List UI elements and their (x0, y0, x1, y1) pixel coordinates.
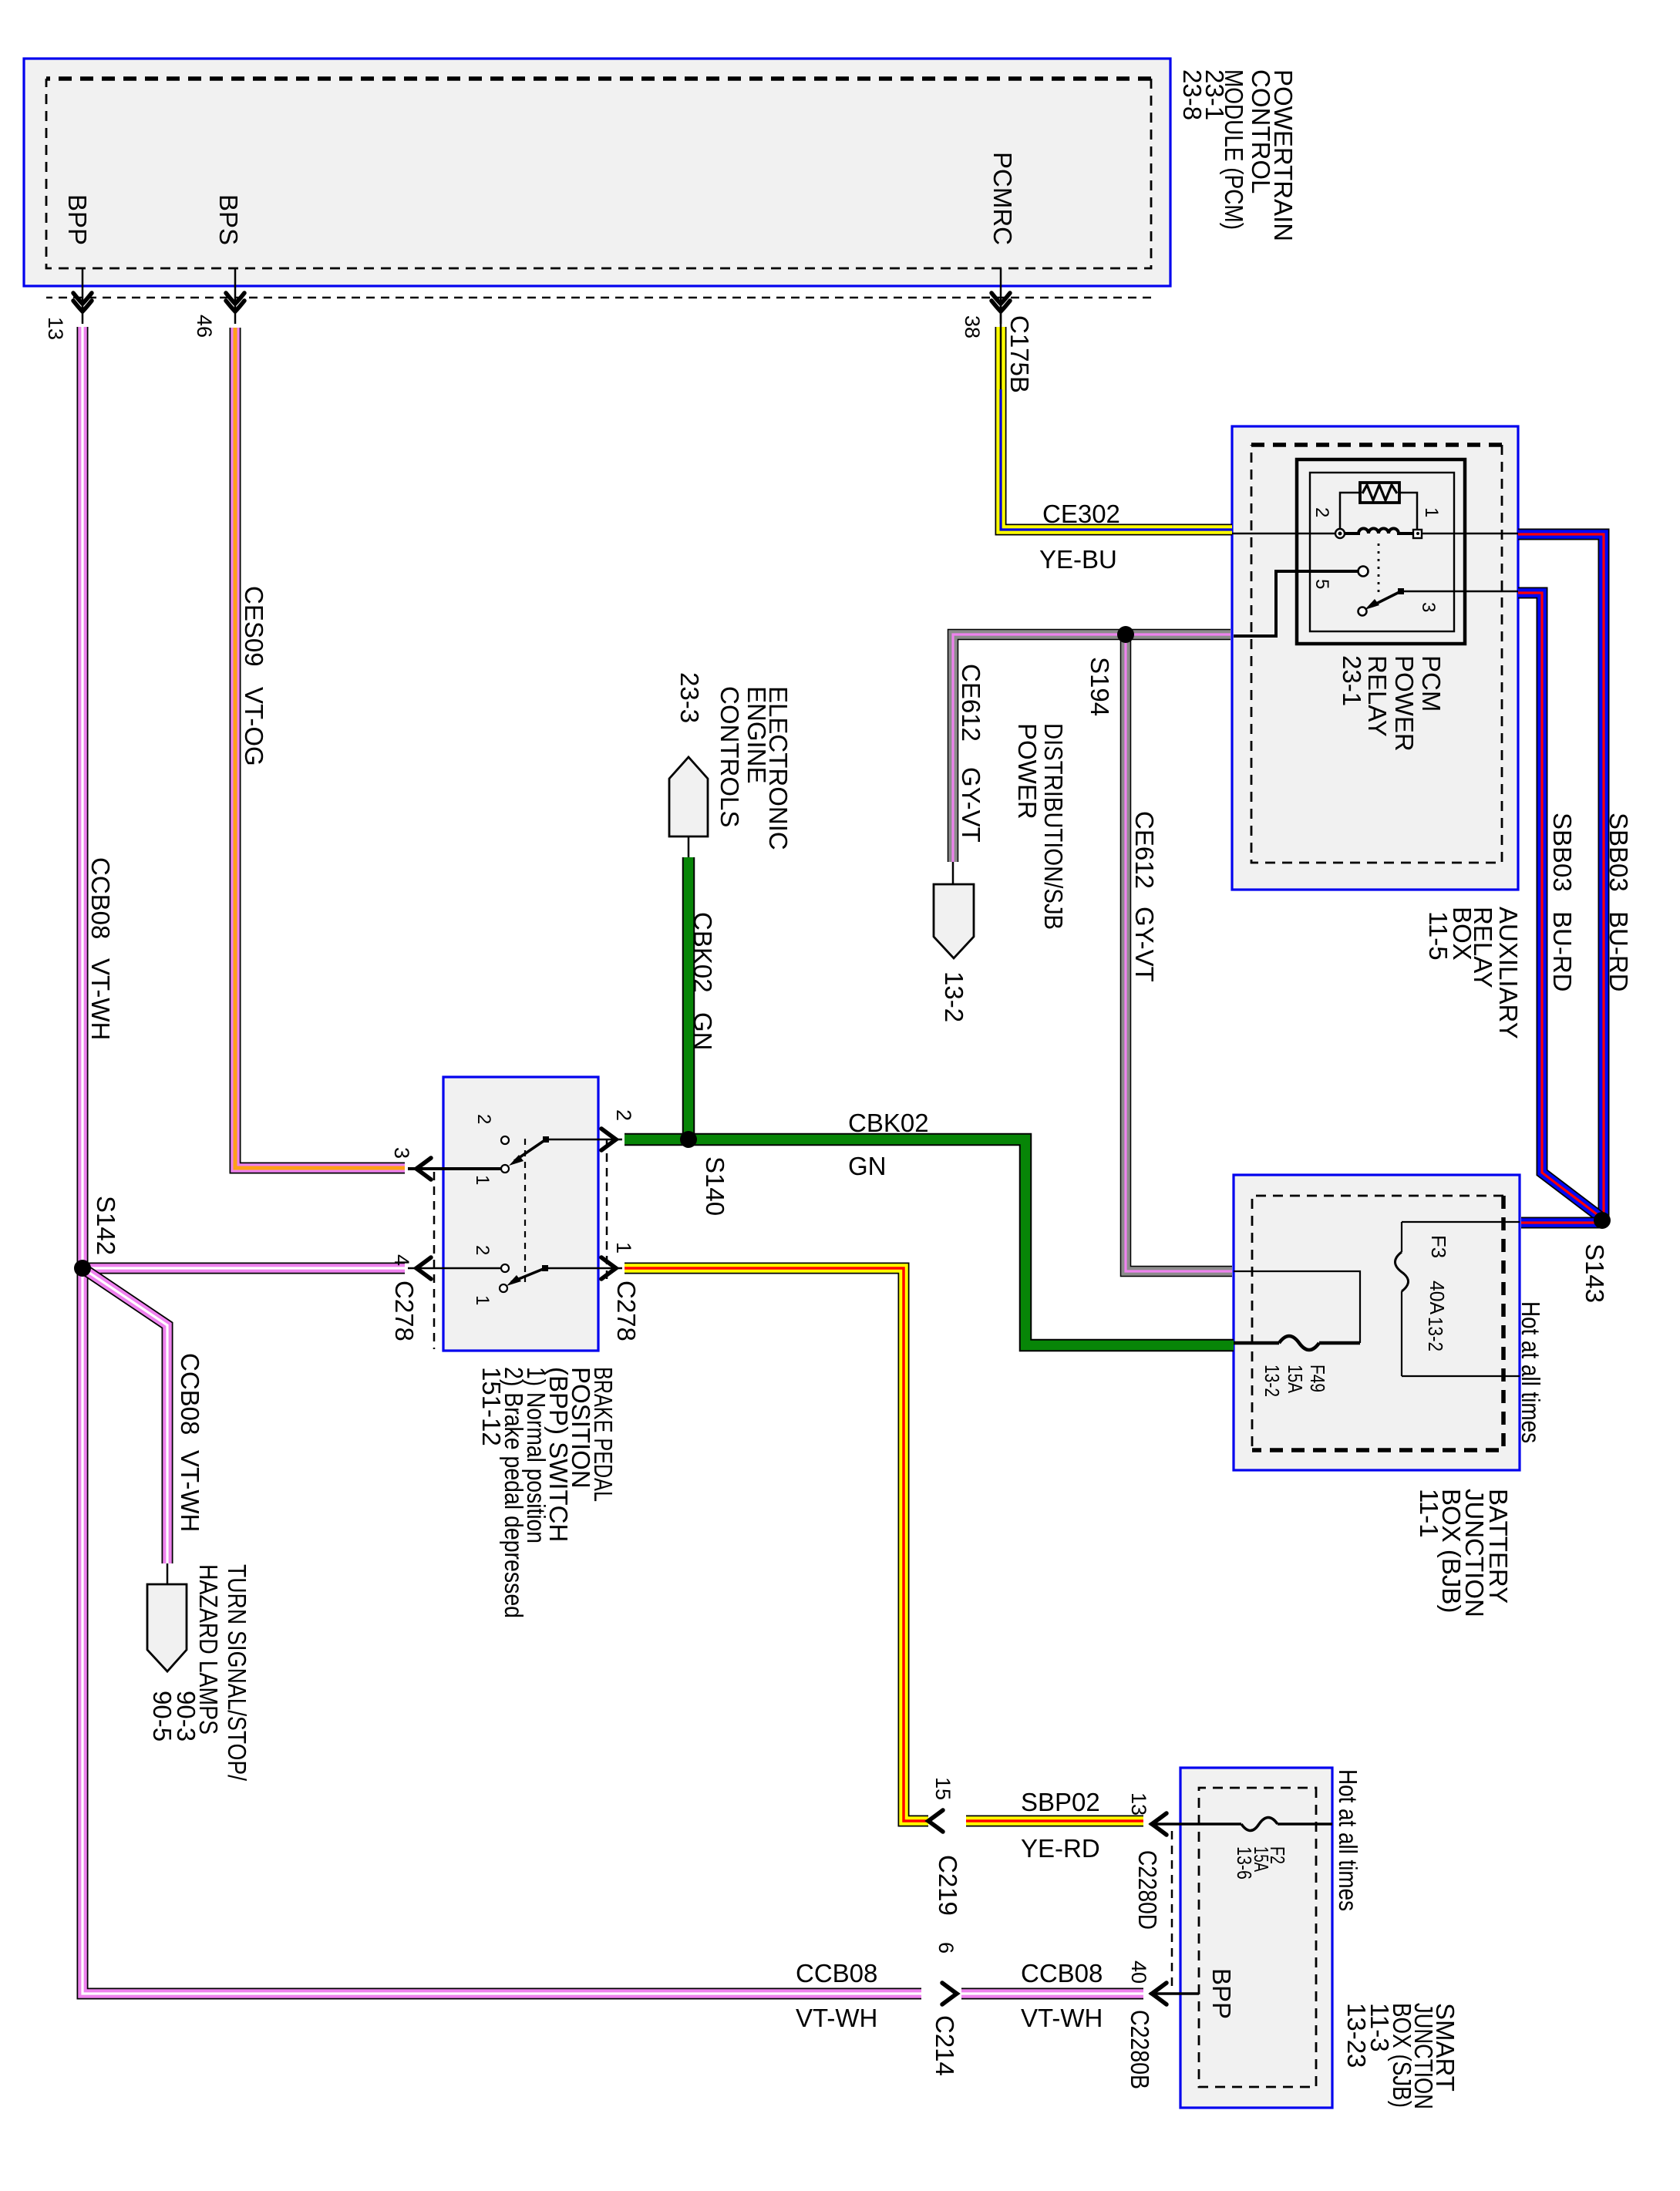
svg-text:PCMRC: PCMRC (988, 152, 1017, 245)
svg-text:SBP02: SBP02 (1021, 1788, 1100, 1816)
svg-text:C214: C214 (931, 2015, 959, 2076)
svg-text:38: 38 (961, 315, 984, 338)
svg-text:CE302: CE302 (1042, 500, 1120, 528)
svg-text:Hot at all times: Hot at all times (1334, 1769, 1362, 1911)
svg-text:13: 13 (1127, 1792, 1150, 1816)
svg-text:CCB08: CCB08 (796, 1959, 877, 1987)
svg-text:C2280D: C2280D (1133, 1850, 1162, 1930)
svg-text:46: 46 (193, 315, 216, 338)
svg-text:1: 1 (612, 1242, 635, 1254)
svg-text:GY-VT: GY-VT (957, 767, 985, 843)
svg-text:SBB03: SBB03 (1604, 813, 1633, 892)
svg-text:F3: F3 (1427, 1235, 1450, 1258)
svg-text:ENGINE: ENGINE (742, 686, 771, 784)
svg-text:6: 6 (934, 1942, 958, 1954)
svg-text:13-2: 13-2 (1424, 1317, 1447, 1351)
svg-text:3: 3 (390, 1147, 413, 1159)
svg-text:3: 3 (1418, 602, 1439, 612)
svg-text:S142: S142 (92, 1196, 120, 1255)
svg-text:F49: F49 (1306, 1365, 1329, 1392)
svg-text:15A: 15A (1284, 1365, 1307, 1394)
svg-text:AUXILIARY: AUXILIARY (1494, 907, 1523, 1039)
svg-text:13: 13 (44, 317, 67, 340)
svg-text:151-12: 151-12 (477, 1367, 506, 1446)
svg-text:CONTROLS: CONTROLS (715, 686, 744, 827)
svg-text:90-5: 90-5 (148, 1691, 177, 1742)
svg-text:CBK02: CBK02 (688, 912, 717, 993)
svg-text:BU-RD: BU-RD (1604, 911, 1633, 992)
svg-text:23-3: 23-3 (675, 672, 704, 723)
svg-text:11-1: 11-1 (1415, 1489, 1443, 1538)
svg-text:2: 2 (473, 1114, 494, 1124)
svg-text:RELAY: RELAY (1363, 655, 1392, 737)
svg-text:BPS: BPS (214, 194, 243, 245)
svg-text:YE-BU: YE-BU (1039, 545, 1117, 574)
svg-text:13-6: 13-6 (1233, 1846, 1256, 1880)
svg-text:VT-WH: VT-WH (1021, 2004, 1103, 2032)
svg-text:1: 1 (1421, 507, 1442, 517)
svg-text:DISTRIBUTION/SJB: DISTRIBUTION/SJB (1039, 723, 1068, 930)
svg-text:2: 2 (612, 1109, 635, 1121)
svg-text:GY-VT: GY-VT (1130, 907, 1159, 982)
svg-text:40A: 40A (1426, 1281, 1449, 1315)
svg-text:C175B: C175B (1005, 315, 1034, 393)
svg-text:BPP: BPP (1207, 1968, 1236, 2019)
svg-text:4: 4 (390, 1254, 413, 1266)
svg-text:C219: C219 (934, 1855, 962, 1916)
svg-text:23-8: 23-8 (1178, 69, 1207, 120)
svg-text:YE-RD: YE-RD (1021, 1834, 1100, 1863)
svg-text:GN: GN (688, 1012, 717, 1051)
svg-text:VT-WH: VT-WH (176, 1450, 204, 1532)
svg-text:S140: S140 (701, 1156, 729, 1216)
svg-text:PCM: PCM (1417, 655, 1446, 712)
svg-text:CE612: CE612 (957, 664, 985, 742)
svg-text:GN: GN (848, 1152, 887, 1180)
svg-text:S143: S143 (1581, 1244, 1609, 1303)
svg-text:13-2: 13-2 (940, 971, 968, 1022)
svg-text:2: 2 (1311, 507, 1332, 517)
svg-text:CE612: CE612 (1130, 811, 1159, 889)
svg-text:SBB03: SBB03 (1548, 813, 1577, 892)
svg-text:2: 2 (472, 1245, 493, 1255)
svg-text:POWER: POWER (1013, 723, 1042, 820)
svg-text:40: 40 (1127, 1960, 1150, 1984)
svg-text:S194: S194 (1086, 657, 1114, 716)
svg-text:CCB08: CCB08 (86, 857, 115, 939)
svg-text:15: 15 (931, 1777, 954, 1800)
svg-text:CONTROL: CONTROL (1247, 69, 1275, 194)
svg-text:VT-WH: VT-WH (796, 2004, 877, 2032)
svg-text:1: 1 (472, 1295, 493, 1305)
svg-text:VT-WH: VT-WH (86, 958, 115, 1040)
svg-text:1: 1 (472, 1175, 493, 1185)
svg-text:CCB08: CCB08 (176, 1353, 204, 1435)
svg-text:C278: C278 (612, 1281, 641, 1341)
svg-text:Hot at all times: Hot at all times (1517, 1301, 1545, 1443)
svg-text:CES09: CES09 (240, 586, 268, 667)
svg-text:VT-OG: VT-OG (240, 687, 268, 766)
svg-text:CBK02: CBK02 (848, 1109, 929, 1137)
svg-text:BU-RD: BU-RD (1548, 911, 1577, 992)
svg-text:11-5: 11-5 (1424, 911, 1453, 961)
svg-text:23-1: 23-1 (1338, 655, 1366, 706)
svg-text:13-23: 13-23 (1342, 2003, 1371, 2068)
svg-text:CCB08: CCB08 (1021, 1959, 1103, 1987)
svg-text:TURN SIGNAL/STOP/: TURN SIGNAL/STOP/ (223, 1564, 251, 1782)
svg-text:POWER: POWER (1390, 655, 1419, 752)
svg-text:5: 5 (1311, 579, 1332, 589)
svg-text:C2280B: C2280B (1126, 2010, 1154, 2089)
svg-text:C278: C278 (390, 1281, 419, 1341)
svg-text:BPP: BPP (63, 194, 92, 245)
svg-text:13-2: 13-2 (1261, 1365, 1284, 1397)
